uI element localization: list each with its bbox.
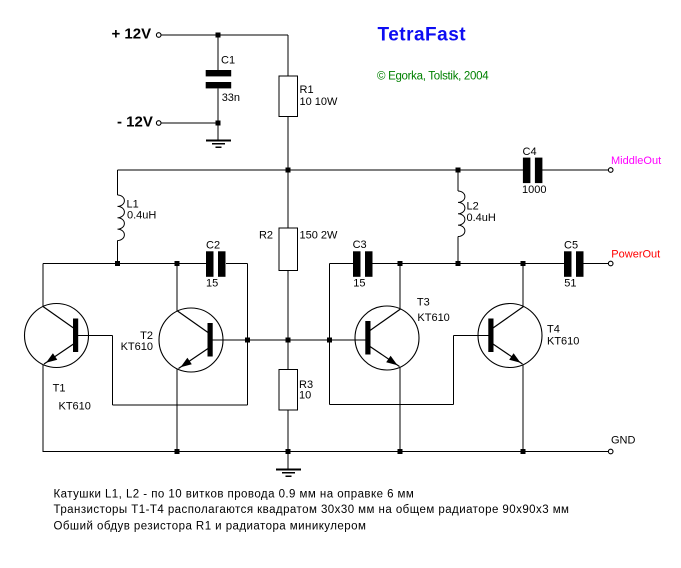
svg-text:KT610: KT610 <box>59 401 91 413</box>
svg-text:KT610: KT610 <box>121 341 153 353</box>
svg-text:T4: T4 <box>547 323 560 335</box>
svg-text:C3: C3 <box>353 239 367 251</box>
svg-text:R2: R2 <box>259 230 273 242</box>
svg-text:+ 12V: + 12V <box>112 26 152 43</box>
svg-text:0.4uH: 0.4uH <box>127 210 156 222</box>
svg-text:KT610: KT610 <box>417 312 449 324</box>
svg-text:10: 10 <box>299 389 311 401</box>
svg-text:Обший обдув резистора R1 и рад: Обший обдув резистора R1 и радиатора мин… <box>54 520 367 532</box>
svg-text:C2: C2 <box>206 240 220 252</box>
svg-text:15: 15 <box>353 277 365 289</box>
svg-text:PowerOut: PowerOut <box>611 248 660 260</box>
svg-text:150 2W: 150 2W <box>300 230 339 242</box>
svg-text:C4: C4 <box>523 146 537 158</box>
svg-text:C5: C5 <box>564 239 578 251</box>
svg-text:TetraFast: TetraFast <box>378 25 467 46</box>
svg-text:1000: 1000 <box>522 184 546 196</box>
svg-text:L2: L2 <box>467 201 479 213</box>
svg-text:© Egorka, Tolstik, 2004: © Egorka, Tolstik, 2004 <box>377 70 489 82</box>
svg-text:Транзисторы Т1-Т4 располагаютс: Транзисторы Т1-Т4 располагаются квадрато… <box>54 504 570 516</box>
svg-text:0.4uH: 0.4uH <box>467 212 496 224</box>
svg-text:R1: R1 <box>300 84 314 96</box>
svg-text:Катушки L1, L2 - по 10 витков: Катушки L1, L2 - по 10 витков провода 0.… <box>54 488 415 500</box>
svg-text:MiddleOut: MiddleOut <box>611 155 661 167</box>
svg-text:33n: 33n <box>222 92 240 104</box>
svg-text:10 10W: 10 10W <box>300 96 339 108</box>
svg-text:L1: L1 <box>127 198 139 210</box>
svg-text:T3: T3 <box>417 297 430 309</box>
svg-text:51: 51 <box>564 277 576 289</box>
svg-text:15: 15 <box>206 278 218 290</box>
svg-text:KT610: KT610 <box>547 336 579 348</box>
svg-text:- 12V: - 12V <box>117 114 153 131</box>
svg-text:C1: C1 <box>221 54 235 66</box>
svg-text:T1: T1 <box>53 383 66 395</box>
svg-text:GND: GND <box>611 434 636 446</box>
